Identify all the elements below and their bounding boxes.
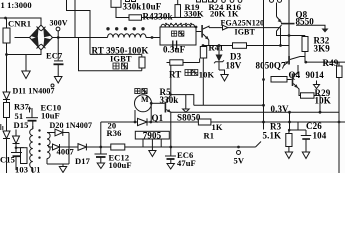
inductor L main choke (108, 34, 147, 38)
terminals top right (270, 0, 274, 2)
wire R41 lead (202, 59, 204, 106)
svg-text:330k10uF: 330k10uF (123, 1, 162, 11)
wire secondary right (68, 133, 70, 165)
regulator 7905 (135, 131, 169, 139)
svg-text:100uF: 100uF (109, 160, 132, 170)
wire Q1 emitter (166, 110, 171, 113)
svg-text:D11 1N4007: D11 1N4007 (13, 87, 55, 96)
coil winding (161, 24, 195, 27)
svg-text:47uF: 47uF (177, 158, 196, 168)
svg-text:3K9: 3K9 (314, 44, 331, 54)
ground (62, 164, 64, 167)
diode freewheel (138, 118, 148, 125)
svg-text:8050Q7: 8050Q7 (256, 60, 287, 70)
resistor R32 3K9 (304, 36, 306, 37)
arrow test point (316, 81, 318, 85)
svg-text:103: 103 (15, 164, 28, 173)
svg-text:10K: 10K (315, 95, 331, 105)
node (202, 44, 205, 47)
transformer core dots (38, 129, 40, 159)
terminals top middle (213, 0, 217, 2)
varistor CNR1 (6, 18, 8, 28)
resistor R3 5.1K (286, 134, 292, 147)
bus 0.3V (171, 111, 339, 113)
capacitor EC6 47uF (237, 146, 240, 149)
IGBT V1 (196, 31, 201, 33)
resistor R1 1K (198, 119, 211, 125)
wire vertical (74, 0, 76, 38)
svg-text:4007: 4007 (57, 147, 75, 157)
ground (54, 77, 62, 84)
svg-text:R41: R41 (209, 43, 224, 53)
diode D15 (15, 130, 17, 137)
wire emitter bus (203, 45, 233, 47)
label wenjian (113, 63, 119, 69)
rail 5V (86, 146, 255, 148)
transistor Q4 body (292, 74, 294, 87)
label xianpan (172, 31, 177, 36)
resistor R36 (111, 144, 125, 150)
svg-text:1K: 1K (228, 8, 239, 18)
svg-text:D20 1N4007: D20 1N4007 (50, 121, 93, 130)
resistor R19 (177, 0, 179, 5)
svg-text:EC7: EC7 (46, 51, 63, 61)
node (5, 53, 8, 56)
svg-text:R4330k: R4330k (143, 12, 173, 22)
svg-text:Q1: Q1 (152, 113, 164, 123)
svg-text:104: 104 (313, 131, 327, 141)
wire bridge bottom (7, 50, 42, 55)
polarity arrow (29, 107, 31, 113)
resistor Q4 base (271, 77, 287, 83)
wire (146, 37, 160, 39)
resistor R37 51 (4, 103, 10, 118)
svg-text:18V: 18V (226, 61, 242, 71)
transistor Q1 body (165, 102, 167, 113)
svg-text:C26: C26 (306, 121, 322, 131)
node R32 bottom (304, 61, 307, 64)
wire Q4 base (287, 79, 292, 81)
thermistor RT pot (170, 60, 183, 65)
wire RT top (90, 53, 142, 55)
wire DC+ bus (53, 37, 108, 39)
svg-text:5.1K: 5.1K (263, 131, 282, 141)
diode rail A (3, 131, 10, 139)
node on AC wire (4, 17, 7, 20)
wire fan feed (100, 122, 102, 147)
wire RT branch (79, 38, 142, 71)
terminal 5V (237, 151, 241, 155)
wire sense vertical (263, 0, 265, 122)
bridge rectifier (30, 25, 53, 50)
svg-text:D17: D17 (75, 156, 91, 166)
zener D3 (218, 44, 221, 47)
svg-text:U1: U1 (31, 166, 41, 174)
resistor R41 (202, 46, 204, 48)
svg-text:M: M (141, 95, 149, 104)
bus R1 feed (101, 121, 345, 123)
svg-text:R37: R37 (14, 102, 30, 112)
wire (116, 7, 129, 17)
svg-text:5V: 5V (234, 155, 245, 165)
svg-text:FGA25N120: FGA25N120 (221, 19, 265, 28)
capacitor 0.3uF (160, 44, 173, 46)
fan label (135, 89, 140, 94)
svg-text:300V: 300V (50, 19, 68, 28)
wire sense stub (263, 122, 265, 130)
svg-text:0.3uF: 0.3uF (163, 45, 186, 55)
svg-text:10uF: 10uF (41, 110, 60, 120)
coil pan box (160, 27, 196, 45)
wire AC left stub (15, 37, 30, 39)
ground (25, 55, 27, 72)
svg-text:D15: D15 (14, 120, 29, 130)
svg-text:CNR1: CNR1 (8, 18, 31, 28)
wire R3 C26 feed (289, 122, 291, 130)
svg-text:R1: R1 (204, 130, 215, 140)
terminal 300V (56, 27, 60, 31)
resistor 103 box (16, 147, 24, 149)
ground (185, 95, 187, 109)
resistor R29 10K (301, 93, 315, 98)
arrow on wire (223, 25, 228, 30)
svg-text:S8050: S8050 (177, 113, 201, 123)
wire 8550 to ground (296, 25, 325, 28)
svg-text:7905: 7905 (143, 130, 162, 140)
svg-text:330K: 330K (184, 8, 204, 18)
label R3 remnant (126, 0, 130, 2)
wire (142, 17, 202, 19)
fan motor M (135, 95, 152, 112)
transformer T1 secondary (47, 133, 50, 159)
diode D17 (69, 146, 78, 148)
wire gate drive (209, 27, 281, 29)
wire (280, 28, 282, 46)
wire collector net (171, 95, 194, 106)
svg-text:IGBT: IGBT (235, 27, 256, 36)
svg-text:1 1:3000: 1 1:3000 (1, 0, 32, 10)
svg-text:10K: 10K (199, 69, 215, 79)
svg-text:9014: 9014 (306, 70, 325, 80)
wire AC top (0, 18, 41, 25)
diode D20 (47, 132, 55, 134)
transformer T1 primary (32, 126, 34, 129)
cut glyph left edge (0, 124, 2, 130)
capacitor EC12 (100, 147, 102, 154)
wire Q1 base (151, 102, 164, 104)
svg-text:IGBT: IGBT (110, 53, 132, 63)
choke core dots (106, 27, 144, 30)
resistor R4 (129, 15, 142, 20)
thermistor RT (139, 57, 145, 68)
resistor R3 top (111, 0, 121, 7)
wire upper step (67, 0, 91, 54)
svg-text:R36: R36 (107, 128, 122, 138)
resistor R16 (233, 43, 247, 49)
wire to edge (306, 61, 345, 63)
diode 4007 mid (48, 146, 53, 148)
svg-text:20K: 20K (210, 8, 226, 18)
